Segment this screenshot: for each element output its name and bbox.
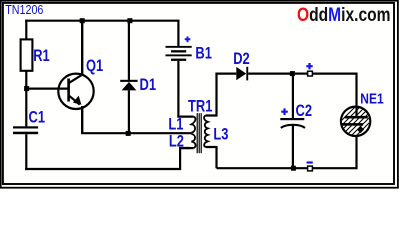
wire L3 top stub — [206, 74, 217, 116]
svg-text:L3: L3 — [213, 125, 228, 144]
wire C2 top lead — [292, 76, 294, 118]
svg-text:C1: C1 — [29, 108, 45, 127]
capacitor C1 — [13, 126, 38, 134]
wire D1 top lead — [128, 21, 130, 80]
wire Q1 emitter — [81, 106, 83, 133]
svg-text:Q1: Q1 — [86, 56, 103, 75]
diode D1 — [120, 80, 137, 91]
wire Q1 collector — [81, 21, 83, 75]
terminal minus output — [308, 166, 313, 171]
svg-text:C2: C2 — [296, 101, 312, 120]
wire bottom rail primary — [25, 148, 190, 169]
svg-text:R1: R1 — [33, 46, 49, 65]
node base junction — [24, 86, 29, 91]
svg-text:D2: D2 — [233, 49, 249, 68]
wire D2 to junction — [248, 72, 292, 74]
wire bottom rail secondary — [217, 167, 357, 169]
label B1 plus — [185, 37, 191, 43]
inductor L3 winding — [204, 116, 208, 148]
terminal plus output — [308, 71, 313, 76]
node D1 emitter junction — [126, 131, 131, 136]
label terminal minus — [307, 161, 313, 163]
wire R1 top lead — [25, 20, 27, 40]
capacitor C2 — [280, 118, 305, 128]
wire L3 bottom stub — [206, 147, 217, 168]
node C2 top junction — [290, 71, 295, 76]
label C2 plus — [281, 108, 288, 115]
inductor L1 winding — [191, 117, 195, 133]
wire R1 bottom lead — [25, 71, 27, 89]
svg-text:D1: D1 — [140, 76, 156, 95]
wire D1 bottom lead — [128, 90, 130, 133]
wire top rail — [25, 20, 178, 22]
wire base — [26, 87, 68, 89]
transistor Q1 — [58, 74, 93, 109]
node D1 top junction — [127, 18, 132, 23]
wire C1 top lead — [25, 89, 27, 127]
wire C1 bottom lead — [25, 134, 27, 170]
wire emitter run — [81, 132, 191, 134]
inductor L2 winding — [191, 134, 195, 148]
wire B1 bottom lead — [177, 61, 179, 117]
battery B1 — [166, 46, 192, 61]
wire L1 top stub — [177, 115, 193, 117]
wire NE1 bottom lead — [355, 137, 357, 170]
wire L2 bottom stub — [180, 147, 194, 149]
node C2 bottom junction — [291, 166, 296, 171]
svg-text:TR1: TR1 — [188, 97, 212, 116]
wire secondary top left — [215, 72, 236, 74]
neon lamp NE1 — [338, 89, 373, 154]
svg-text:NE1: NE1 — [360, 90, 384, 107]
svg-text:OddMix.com: OddMix.com — [297, 3, 391, 25]
wire plus terminal to NE1 — [312, 74, 356, 106]
resistor R1 — [21, 39, 33, 70]
wire junction to plus terminal — [295, 72, 308, 74]
diode D2 — [236, 67, 248, 81]
transformer TR1 core — [197, 113, 201, 153]
label terminal plus — [306, 63, 312, 69]
svg-text:TN1206: TN1206 — [5, 3, 43, 17]
svg-text:B1: B1 — [195, 44, 211, 63]
wire C2 bottom lead — [292, 125, 294, 168]
wire B1 top lead — [177, 20, 179, 46]
node collector-rail junction — [80, 18, 85, 23]
